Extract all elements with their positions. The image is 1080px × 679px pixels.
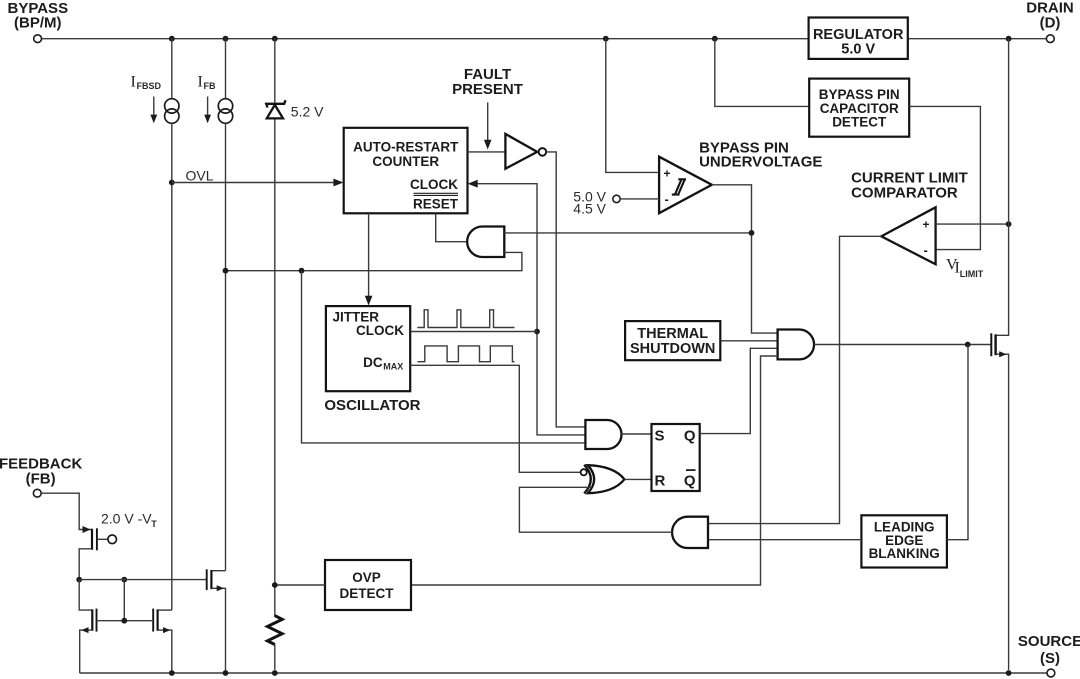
resistor R1	[267, 616, 282, 645]
zener diode 5.2V	[274, 39, 276, 104]
svg-text:4.5 V: 4.5 V	[573, 201, 606, 217]
svg-text:(D): (D)	[1040, 14, 1061, 31]
junction mid rail / IFB line	[223, 268, 229, 274]
node dot comparator/reset-and	[749, 230, 755, 236]
svg-text:(S): (S)	[1040, 650, 1060, 667]
wire cap detect out to comparator minus	[909, 106, 980, 249]
wire bottom rail	[80, 672, 1047, 674]
svg-text:(FB): (FB)	[26, 470, 56, 487]
svg-text:DETECT: DETECT	[340, 586, 395, 601]
wire fb node rail	[79, 579, 207, 581]
auto-restart counter U1	[344, 128, 468, 214]
wire OVP net up to G4 input4	[411, 356, 778, 585]
and gate G2 (S input)	[585, 420, 621, 449]
junction FB node / mirror gates branch	[121, 577, 127, 583]
svg-text:5.0 V: 5.0 V	[841, 41, 875, 57]
junction top rail / capacitor detect input	[712, 36, 718, 42]
svg-text:COUNTER: COUNTER	[372, 154, 439, 169]
wire G2 out to latch S	[622, 433, 652, 435]
clock waveform	[417, 310, 514, 328]
svg-text:OVL: OVL	[186, 168, 214, 184]
wire G1 top input to comparator line	[504, 232, 751, 234]
svg-text:S: S	[655, 427, 665, 444]
svg-text:+: +	[923, 218, 930, 232]
wire OVL arrow into counter	[172, 182, 335, 184]
svg-text:MAX: MAX	[383, 361, 403, 371]
svg-text:PRESENT: PRESENT	[452, 81, 523, 98]
wire mirror gates	[97, 620, 154, 622]
junction bottom rail / resistor	[272, 670, 278, 676]
wire thermal to 4-and input2	[720, 340, 778, 342]
wire top rail right	[908, 38, 1047, 40]
svg-text:FB: FB	[204, 81, 216, 91]
wire clock net	[477, 184, 586, 435]
svg-text:THERMAL: THERMAL	[637, 326, 708, 342]
node jitter clock junction	[534, 329, 540, 335]
OVP detect box U11	[325, 560, 411, 610]
wire counter to oscillator arrow	[368, 213, 370, 297]
svg-text:COMPARATOR: COMPARATOR	[851, 185, 958, 202]
wire branch to S-and lower input	[302, 271, 586, 443]
svg-text:2.0 V -V: 2.0 V -V	[101, 511, 152, 527]
wire fault present arrow	[487, 102, 489, 140]
svg-text:RESET: RESET	[413, 197, 459, 212]
wire LEB right edge up to gate node	[947, 345, 968, 540]
wire LEB left edge to G5	[708, 539, 861, 541]
junction top rail / UV comparator input	[603, 36, 609, 42]
current source IFBSD	[171, 39, 173, 99]
buffer U2	[505, 134, 537, 169]
junction top rail / zener	[272, 36, 278, 42]
thermal shutdown box U9	[625, 321, 720, 360]
svg-text:+: +	[664, 167, 671, 181]
wire plus input to drain line	[936, 223, 1009, 225]
svg-text:DETECT: DETECT	[832, 114, 887, 129]
node OVL dot	[169, 180, 175, 186]
svg-text:I: I	[131, 74, 136, 91]
terminal SOURCE (S)	[1047, 669, 1055, 677]
transistor Q3 (mirror left)	[79, 580, 92, 611]
junction bottom rail / Q5 source	[223, 670, 229, 676]
wire G4 output to gate node	[814, 344, 991, 346]
svg-text:FBSD: FBSD	[137, 81, 162, 91]
wire G5 out to xor lower input	[519, 487, 672, 532]
junction bottom rail / Q1 source	[1006, 670, 1012, 676]
current source IFB	[225, 39, 227, 99]
svg-text:(BP/M): (BP/M)	[14, 15, 62, 32]
junction top rail / drain line	[1006, 36, 1012, 42]
wire G3 out to latch R	[625, 478, 652, 480]
terminal FEEDBACK (FB)	[33, 489, 41, 497]
power MOSFET Q1	[996, 39, 1009, 336]
svg-text:AUTO-RESTART: AUTO-RESTART	[353, 140, 459, 155]
bypass UV comparator U5	[606, 39, 659, 173]
wire dcmax output	[410, 365, 580, 472]
svg-text:SHUTDOWN: SHUTDOWN	[630, 341, 715, 357]
svg-text:-: -	[665, 192, 669, 207]
junction top rail / IFBSD	[169, 36, 175, 42]
transistor Q5 (sense right)	[211, 570, 225, 572]
dcmax waveform	[417, 346, 514, 362]
oscillator box U3	[326, 306, 410, 391]
svg-text:CLOCK: CLOCK	[410, 177, 458, 192]
svg-text:OVP: OVP	[352, 570, 381, 585]
wire buffer out to fault line	[546, 152, 585, 427]
svg-text:UNDERVOLTAGE: UNDERVOLTAGE	[699, 153, 822, 170]
svg-text:SOURCE: SOURCE	[1018, 633, 1080, 650]
wire IFB down	[225, 123, 227, 570]
and gate G1 (reset, faces left)	[467, 227, 504, 258]
svg-text:I: I	[198, 74, 203, 91]
wire comparator output down to and gate G5	[708, 236, 881, 523]
wire minus input	[620, 198, 659, 200]
svg-text:OSCILLATOR: OSCILLATOR	[324, 397, 420, 414]
junction mid rail / S-gate branch	[299, 268, 305, 274]
wire OVP input	[275, 584, 325, 586]
wire FB to sense fet	[41, 493, 92, 529]
junction top rail / IFB	[223, 36, 229, 42]
wire counter output to buffer	[468, 151, 506, 153]
latch U4 S/R	[652, 424, 700, 491]
svg-text:LIMIT: LIMIT	[960, 269, 984, 279]
svg-text:-: -	[924, 243, 928, 258]
and gate G4 (4 input)	[778, 330, 814, 360]
and gate G5 (faces left)	[672, 517, 708, 548]
wire reset pin	[436, 213, 468, 241]
svg-text:5.2 V: 5.2 V	[291, 103, 324, 119]
svg-text:BLANKING: BLANKING	[869, 546, 940, 561]
svg-text:Q: Q	[684, 427, 696, 444]
svg-text:CLOCK: CLOCK	[356, 323, 404, 338]
svg-text:Q: Q	[684, 473, 696, 490]
xor gate G3	[584, 465, 591, 494]
svg-text:DC: DC	[363, 355, 383, 370]
wire latch Q to 4-and input3	[700, 348, 778, 433]
wire UV comparator output down	[712, 185, 778, 333]
junction bottom rail / Q4 source	[169, 670, 175, 676]
transistor Q2 (FB sense)	[83, 526, 91, 533]
wire jitter clock output	[410, 331, 537, 333]
transistor Q4 (mirror right)	[158, 609, 172, 611]
junction FB node / Q3 drain	[76, 577, 82, 583]
wire gate drop	[123, 580, 125, 621]
bypass pin capacitor detect box U7	[715, 39, 809, 107]
leading edge blanking box U10	[861, 515, 947, 567]
svg-text:R: R	[655, 473, 666, 490]
wire IFBSD down	[171, 123, 173, 610]
terminal BYPASS (BP/M)	[34, 35, 42, 43]
wire G1 bottom input	[226, 252, 522, 270]
wire top rail left	[42, 38, 809, 40]
terminal DRAIN (D)	[1046, 35, 1054, 43]
svg-text:T: T	[151, 519, 157, 529]
regulator box U6	[809, 18, 908, 59]
